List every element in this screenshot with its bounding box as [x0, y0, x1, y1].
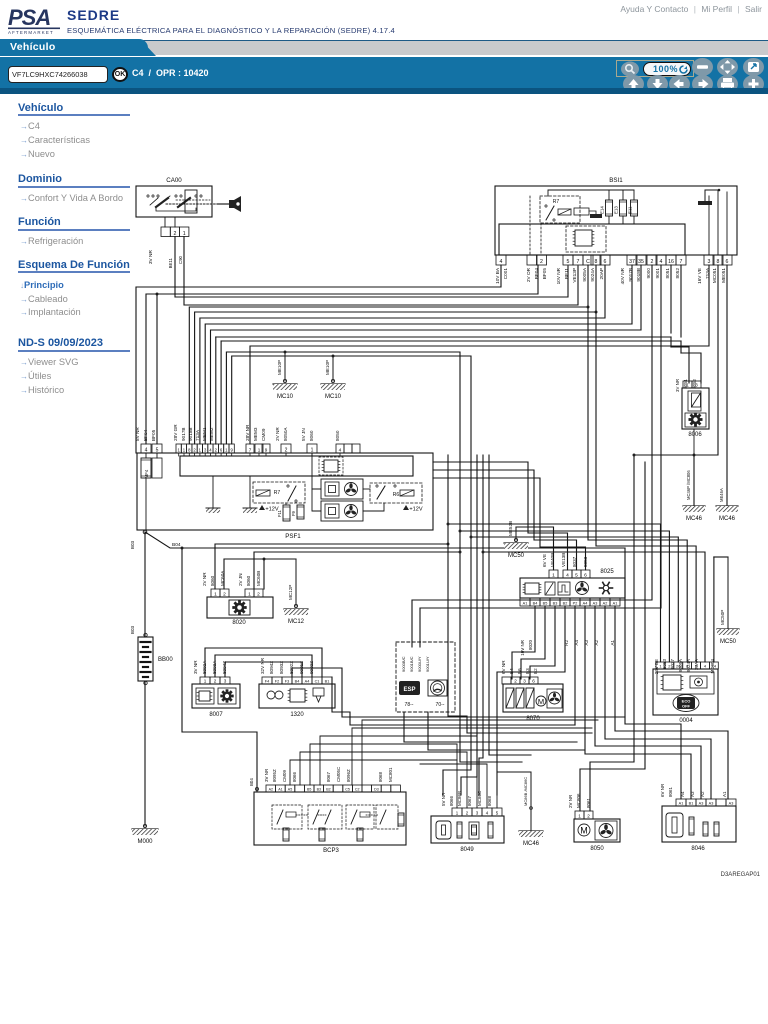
fuse E14	[608, 216, 610, 224]
svg-text:10V NR: 10V NR	[520, 639, 525, 656]
svg-text:2: 2	[587, 813, 590, 818]
wire ESP down left	[404, 712, 577, 742]
svg-text:A1: A1	[278, 787, 282, 791]
BCP3 dotted link	[296, 814, 308, 816]
svg-text:9000U/Y: 9000U/Y	[417, 656, 422, 672]
svg-text:8052: 8052	[675, 268, 680, 279]
svg-text:78--: 78--	[405, 702, 414, 708]
svg-text:MC806: MC806	[576, 793, 581, 808]
svg-text:A1: A1	[610, 640, 615, 646]
svg-text:20AP: 20AP	[599, 268, 604, 279]
svg-text:ME051: ME051	[721, 268, 726, 283]
svg-text:6: 6	[584, 573, 587, 579]
svg-text:2V NR: 2V NR	[568, 794, 573, 808]
svg-text:9000: 9000	[646, 268, 651, 279]
wire 1320 A4 down	[332, 677, 575, 725]
wire battery to ground M000	[144, 681, 146, 826]
svg-text:6: 6	[532, 678, 535, 683]
svg-text:8050: 8050	[590, 846, 604, 852]
svg-text:R6: R6	[393, 492, 400, 498]
ground MC12	[295, 559, 297, 606]
svg-text:9: 9	[265, 447, 268, 452]
wire 9005A to PSF1	[189, 265, 588, 444]
svg-text:4: 4	[704, 663, 707, 668]
svg-text:VE13P: VE13P	[572, 268, 577, 283]
svg-text:1: 1	[225, 447, 228, 452]
wire 8051 to bus	[670, 265, 672, 333]
wire to MC50 left	[516, 527, 554, 570]
svg-text:1: 1	[177, 447, 180, 452]
long trunk wires center	[447, 455, 449, 544]
svg-text:MC60B: MC60B	[256, 571, 261, 586]
svg-text:8025: 8025	[600, 569, 614, 575]
svg-text:3: 3	[224, 678, 227, 683]
svg-text:B2: B2	[533, 668, 538, 674]
wire 8025 A4 down	[585, 606, 691, 799]
svg-text:70--: 70--	[436, 702, 445, 708]
svg-text:B4: B4	[295, 679, 300, 683]
svg-text:A3: A3	[593, 601, 598, 605]
fuse MF4	[145, 453, 147, 458]
wire 8025 A3 down	[595, 606, 701, 799]
bus wire 8052 long	[221, 340, 681, 342]
fuse E11	[633, 190, 635, 200]
svg-text:1: 1	[311, 447, 314, 453]
svg-text:CM09: CM09	[261, 428, 266, 441]
svg-text:3: 3	[708, 259, 711, 265]
contactor 2 with fan	[321, 501, 363, 521]
svg-text:3: 3	[204, 447, 207, 452]
svg-text:BE11: BE11	[564, 268, 569, 280]
8025 internals	[525, 583, 539, 594]
svg-text:MC50P: MC50P	[720, 610, 725, 625]
wire 9017B to PSF1	[205, 265, 632, 444]
wire 8025 B3 to 8070	[530, 606, 555, 679]
wire B04 diagonal	[145, 532, 625, 548]
svg-text:6: 6	[726, 259, 729, 265]
wire 8025 B4 to 8070	[512, 606, 535, 679]
svg-text:MC46: MC46	[686, 516, 703, 522]
svg-text:MC12P: MC12P	[288, 585, 293, 600]
svg-text:1320: 1320	[290, 712, 304, 718]
svg-text:M: M	[580, 825, 588, 835]
svg-text:8037: 8037	[572, 556, 577, 567]
svg-text:8096Z: 8096Z	[346, 769, 351, 782]
svg-text:2: 2	[214, 678, 217, 683]
wire 8025 P2 to 1320	[574, 606, 576, 725]
BCP3 pin risers	[290, 760, 457, 785]
svg-text:3V NR: 3V NR	[193, 660, 198, 674]
wire 8025 A1 down	[615, 606, 728, 799]
fuse holder second cell	[152, 458, 162, 478]
wire 9005A trunk to 0004	[587, 314, 589, 316]
svg-text:BE11: BE11	[168, 257, 173, 268]
svg-text:R7: R7	[274, 490, 281, 496]
svg-text:B03: B03	[130, 540, 135, 549]
svg-text:BCP3: BCP3	[323, 848, 339, 854]
wire battery B03	[144, 532, 146, 637]
svg-text:5: 5	[156, 447, 159, 453]
wire 9018B to PSF1	[211, 265, 642, 444]
svg-text:B5: B5	[543, 601, 548, 605]
svg-text:M000: M000	[137, 839, 153, 845]
wire pin 3 inside BSI1	[708, 196, 710, 255]
wire 8020 pin1b to trunk	[254, 552, 460, 589]
svg-text:8046: 8046	[691, 846, 705, 852]
svg-text:4: 4	[500, 259, 503, 265]
BCP3 relay 1	[272, 805, 302, 829]
relay R7 in BSI1	[540, 196, 580, 223]
svg-text:A4: A4	[305, 679, 310, 683]
svg-text:9001B/C: 9001B/C	[409, 656, 414, 672]
svg-text:B04: B04	[172, 542, 181, 548]
svg-text:MC86C: MC86C	[477, 790, 482, 806]
svg-text:1: 1	[204, 678, 207, 683]
svg-text:F4: F4	[265, 679, 269, 683]
PSF1 internal ground left	[212, 476, 214, 508]
svg-text:1: 1	[578, 813, 581, 818]
condenser unit 8049	[431, 816, 504, 843]
svg-text:2: 2	[223, 591, 226, 597]
svg-text:9000B/C: 9000B/C	[401, 656, 406, 672]
svg-text:C2: C2	[355, 787, 360, 791]
svg-text:3V NR: 3V NR	[264, 768, 269, 782]
svg-text:28V NR: 28V NR	[245, 424, 250, 441]
svg-text:3V NR: 3V NR	[148, 249, 154, 264]
0004 display ECO OFF	[673, 695, 699, 712]
svg-text:8052: 8052	[692, 378, 697, 388]
relay R7 PSF1	[253, 482, 305, 503]
ground MC46 bottom	[530, 772, 532, 831]
svg-text:8068: 8068	[378, 771, 383, 782]
svg-text:8067: 8067	[467, 795, 472, 806]
chip in PSF1	[319, 457, 343, 475]
ground MC50 left	[514, 538, 517, 541]
0004 feed wires staircase	[448, 524, 661, 662]
svg-text:MEM2: MEM2	[209, 427, 214, 441]
svg-text:9001: 9001	[655, 268, 660, 279]
control panel 0004	[653, 669, 718, 715]
svg-text:ME10P: ME10P	[325, 360, 330, 375]
wire ME051 to MC46	[726, 265, 728, 506]
svg-text:C90: C90	[178, 255, 183, 264]
svg-text:8037: 8037	[670, 659, 675, 670]
svg-text:2: 2	[215, 447, 218, 452]
ground MC10 second	[332, 356, 334, 381]
wire 8020 pin2b junction	[263, 559, 265, 589]
svg-text:4: 4	[660, 259, 663, 265]
svg-text:8068: 8068	[487, 795, 492, 806]
trunk wires right of PSF1	[433, 462, 568, 570]
wire B04 branch to BCP3	[181, 547, 184, 550]
coil and ground in BSI1	[574, 208, 589, 215]
wire 8007-3 to 1320	[225, 662, 302, 677]
BSI1 connector pins	[496, 255, 506, 265]
bus wire 8051 long	[216, 336, 671, 338]
resistance unit 8046	[662, 806, 736, 842]
svg-text:8V NR: 8V NR	[135, 427, 140, 441]
svg-text:B1: B1	[689, 801, 694, 805]
svg-text:9002Z: 9002Z	[309, 661, 314, 674]
svg-text:MEM3: MEM3	[253, 427, 258, 441]
svg-text:VE13B: VE13B	[561, 553, 566, 567]
relay R6 PSF1	[370, 483, 422, 503]
wire MC051 to MC46	[634, 265, 718, 455]
wire 8007-1 to 1320	[205, 648, 322, 677]
wire MC10 second to PSF1 and trunk	[232, 356, 333, 444]
svg-text:BF05: BF05	[542, 268, 547, 280]
svg-text:BF04: BF04	[143, 429, 148, 441]
svg-text:A3: A3	[699, 801, 704, 805]
contactor 1 with fan	[321, 479, 363, 499]
PSF1 internal ground right	[249, 476, 251, 508]
svg-text:1: 1	[248, 591, 251, 597]
svg-text:8051: 8051	[665, 268, 670, 279]
svg-text:MC46P /MC806: MC46P /MC806	[686, 470, 691, 500]
svg-text:F2: F2	[275, 679, 279, 683]
resistor block 8070	[503, 684, 563, 712]
svg-text:8051: 8051	[683, 378, 688, 388]
svg-text:7: 7	[680, 259, 683, 265]
svg-text:MC46: MC46	[719, 516, 736, 522]
heater resistor 8006	[682, 388, 709, 429]
wire CA00 pin1 to BSI1	[184, 237, 578, 306]
svg-text:MC86B /MC86C: MC86B /MC86C	[523, 777, 528, 806]
svg-text:35: 35	[638, 259, 644, 265]
svg-text:MC50: MC50	[720, 639, 737, 645]
wire pin 8 inside BSI1	[717, 190, 719, 255]
svg-text:1: 1	[552, 573, 555, 579]
svg-text:E13: E13	[614, 206, 619, 214]
svg-text:2V JN: 2V JN	[238, 573, 243, 586]
svg-text:6V NR: 6V NR	[660, 783, 665, 797]
wire 1320 B4 down	[292, 668, 625, 717]
svg-text:B4: B4	[533, 601, 538, 605]
svg-text:4: 4	[145, 447, 148, 453]
svg-text:BB00: BB00	[158, 657, 173, 663]
svg-text:C: C	[586, 259, 590, 265]
svg-text:6V NR: 6V NR	[501, 660, 506, 674]
svg-text:1: 1	[456, 810, 459, 815]
svg-text:8: 8	[188, 447, 191, 452]
svg-text:8007: 8007	[209, 712, 223, 718]
svg-text:9: 9	[230, 447, 233, 452]
svg-text:ESP: ESP	[403, 687, 415, 693]
svg-text:5: 5	[496, 810, 499, 815]
svg-text:A1: A1	[722, 791, 727, 797]
svg-text:2V OR: 2V OR	[526, 267, 531, 282]
PSF1 inner unit	[180, 456, 413, 476]
svg-text:MC051: MC051	[712, 268, 717, 284]
svg-text:MF4: MF4	[144, 469, 149, 478]
svg-text:A2: A2	[603, 601, 608, 605]
svg-text:D3AREGAP01: D3AREGAP01	[721, 872, 761, 878]
svg-text:4: 4	[486, 810, 489, 815]
svg-text:8: 8	[595, 259, 598, 265]
wire 8020 pin1 to trunk	[215, 544, 448, 589]
svg-text:MC12: MC12	[288, 619, 305, 625]
svg-text:8050: 8050	[335, 430, 340, 441]
svg-text:R7: R7	[553, 199, 560, 205]
svg-text:A4: A4	[680, 791, 685, 797]
svg-text:2: 2	[514, 678, 517, 683]
svg-text:2: 2	[651, 259, 654, 265]
wire 713A to PSF1	[250, 265, 709, 444]
svg-text:9024A: 9024A	[590, 267, 595, 281]
svg-text:40V NR: 40V NR	[620, 267, 625, 284]
svg-text:9005A: 9005A	[582, 267, 587, 281]
svg-text:8060: 8060	[246, 575, 251, 586]
svg-text:1: 1	[183, 447, 186, 452]
svg-text:10V NR: 10V NR	[556, 267, 561, 284]
wire pin 6 inside BSI1	[726, 192, 728, 255]
8049 risers	[456, 744, 458, 808]
svg-text:A1: A1	[613, 601, 618, 605]
wire trunk 9000 long vertical	[590, 455, 634, 811]
svg-text:C001: C001	[503, 268, 508, 280]
wires to contactors	[312, 453, 321, 489]
svg-text:BSI1: BSI1	[609, 177, 623, 184]
svg-text:8094Z: 8094Z	[269, 661, 274, 674]
svg-text:2: 2	[285, 447, 288, 453]
wire 8025 A2 down	[605, 606, 711, 799]
wire 8020 pin2 to MC12	[224, 559, 296, 589]
BSI1 inner unit box	[499, 224, 685, 255]
svg-text:A2: A2	[269, 787, 273, 791]
svg-text:MC50: MC50	[508, 553, 525, 559]
engine control unit 1320	[259, 684, 335, 708]
relay box BCP3	[254, 792, 406, 845]
svg-text:A2: A2	[700, 791, 705, 797]
control unit 8007	[192, 684, 240, 708]
ground MC10 first	[284, 352, 286, 381]
svg-text:E14: E14	[600, 206, 605, 214]
svg-text:ME46A: ME46A	[719, 488, 724, 502]
svg-text:2V NR: 2V NR	[275, 427, 280, 441]
svg-text:8049: 8049	[460, 847, 474, 853]
svg-text:8020: 8020	[528, 640, 533, 651]
svg-text:713A: 713A	[195, 429, 200, 441]
svg-text:6: 6	[220, 447, 223, 452]
svg-text:A3: A3	[729, 801, 734, 805]
svg-text:0004: 0004	[679, 718, 693, 724]
svg-text:3: 3	[476, 810, 479, 815]
svg-text:8061: 8061	[586, 797, 591, 808]
svg-text:7: 7	[577, 259, 580, 265]
svg-text:3V NR: 3V NR	[675, 379, 680, 392]
svg-text:5V JN: 5V JN	[301, 428, 306, 441]
svg-text:MC801: MC801	[388, 767, 393, 782]
wire 2V OR BF04	[146, 265, 538, 444]
fuse F9	[297, 505, 304, 519]
wire MC10 first to PSF1 and trunk	[226, 352, 285, 444]
fuse E13	[622, 216, 624, 224]
wire 8052 to bus	[680, 265, 682, 337]
svg-text:B2: B2	[326, 787, 330, 791]
svg-text:8053: 8053	[662, 659, 667, 670]
svg-text:A4: A4	[583, 601, 588, 605]
connector C001 pins 2 1	[161, 227, 170, 237]
svg-text:2: 2	[193, 447, 196, 452]
svg-text:B3: B3	[317, 787, 321, 791]
svg-text:MC10: MC10	[325, 394, 342, 400]
svg-text:8006: 8006	[688, 432, 702, 438]
svg-text:M: M	[538, 697, 544, 706]
svg-text:F11: F11	[277, 509, 282, 517]
svg-text:16: 16	[668, 259, 674, 265]
fuse F11	[285, 503, 287, 505]
svg-text:8067: 8067	[326, 771, 331, 782]
ground M000	[143, 824, 146, 827]
svg-text:CA00: CA00	[166, 177, 182, 184]
svg-text:8066: 8066	[292, 771, 297, 782]
svg-text:A3: A3	[690, 791, 695, 797]
svg-text:8050A: 8050A	[283, 427, 288, 441]
svg-text:PSF1: PSF1	[285, 533, 301, 540]
svg-text:MC10: MC10	[277, 394, 294, 400]
svg-text:C5: C5	[345, 787, 350, 791]
svg-text:2: 2	[540, 259, 543, 265]
svg-text:C1: C1	[315, 679, 320, 683]
PSF1 connector pins row	[141, 444, 151, 453]
svg-text:32V NR: 32V NR	[260, 657, 265, 674]
svg-text:5: 5	[567, 259, 570, 265]
microcontroller in BSI1	[566, 226, 606, 252]
svg-text:9001U/Y: 9001U/Y	[425, 656, 430, 672]
svg-text:B1: B1	[325, 679, 330, 683]
fan motor 8050	[574, 819, 620, 842]
wire 8007-2 to 1320	[215, 655, 312, 677]
svg-text:ME52B: ME52B	[508, 521, 513, 536]
svg-text:MEM1: MEM1	[202, 427, 207, 441]
svg-text:5V NR: 5V NR	[441, 792, 446, 806]
key symbol	[166, 203, 216, 205]
+12V supply R7	[259, 505, 265, 510]
svg-text:9001Z: 9001Z	[299, 661, 304, 674]
svg-text:4: 4	[209, 447, 212, 452]
cooling unit 8020	[207, 597, 273, 618]
svg-text:9017B: 9017B	[181, 427, 186, 441]
svg-text:1: 1	[258, 447, 261, 452]
svg-text:9018B: 9018B	[636, 268, 641, 282]
svg-text:8095Z: 8095Z	[272, 769, 277, 782]
junction B03 B04	[143, 530, 147, 534]
svg-text:D3: D3	[374, 787, 379, 791]
BCP3 relay 4	[376, 805, 398, 829]
+12V supply R6	[403, 505, 409, 510]
svg-text:3: 3	[523, 678, 526, 683]
svg-text:2V NR: 2V NR	[202, 572, 207, 586]
svg-text:6: 6	[604, 259, 607, 265]
svg-text:B4: B4	[509, 668, 514, 674]
svg-text:8061: 8061	[668, 786, 673, 797]
svg-text:ME10P: ME10P	[277, 360, 282, 375]
wire ESP down right	[428, 712, 584, 750]
wire CA00 pin2 to BSI1	[175, 237, 568, 298]
svg-text:E11: E11	[628, 206, 633, 214]
svg-text:28V GR: 28V GR	[173, 424, 178, 441]
svg-text:8066: 8066	[449, 795, 454, 806]
pin drops into PSF1 inner unit	[178, 453, 180, 456]
wire 9024A to PSF1	[195, 265, 596, 444]
svg-text:1: 1	[199, 447, 202, 452]
svg-text:37: 37	[629, 259, 635, 265]
svg-text:9018B: 9018B	[188, 427, 193, 441]
svg-text:1: 1	[214, 591, 217, 597]
8025 bottom pins	[520, 598, 530, 606]
svg-text:B3: B3	[553, 601, 558, 605]
dashed wires R7 to connector	[529, 196, 531, 255]
